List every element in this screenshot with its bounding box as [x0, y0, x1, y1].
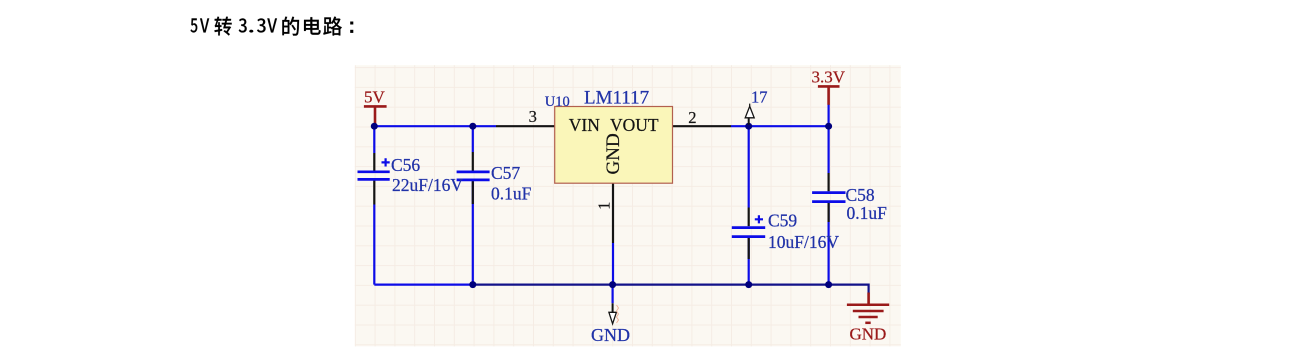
svg-text:17: 17 — [751, 87, 768, 106]
svg-text:C59: C59 — [768, 211, 797, 231]
svg-text:0.1uF: 0.1uF — [847, 203, 888, 223]
svg-text:VOUT: VOUT — [610, 115, 659, 135]
svg-text:C58: C58 — [846, 185, 875, 205]
svg-text:U10: U10 — [545, 94, 570, 110]
svg-text:1: 1 — [594, 202, 613, 210]
svg-text:22uF/16V: 22uF/16V — [392, 175, 463, 195]
svg-text:C56: C56 — [391, 155, 420, 175]
svg-text:10uF/16V: 10uF/16V — [768, 232, 839, 252]
svg-text:2: 2 — [688, 108, 696, 127]
svg-text:GND: GND — [591, 325, 630, 345]
svg-text:C57: C57 — [491, 163, 520, 183]
svg-text:GND: GND — [850, 325, 887, 344]
svg-text:0.1uF: 0.1uF — [491, 183, 532, 203]
svg-text:GND: GND — [603, 133, 624, 174]
svg-text:3.3V: 3.3V — [812, 68, 846, 87]
svg-text:VIN: VIN — [569, 115, 600, 135]
svg-text:5V: 5V — [364, 87, 386, 106]
svg-text:LM1117: LM1117 — [584, 88, 649, 109]
svg-text:3: 3 — [529, 107, 537, 126]
